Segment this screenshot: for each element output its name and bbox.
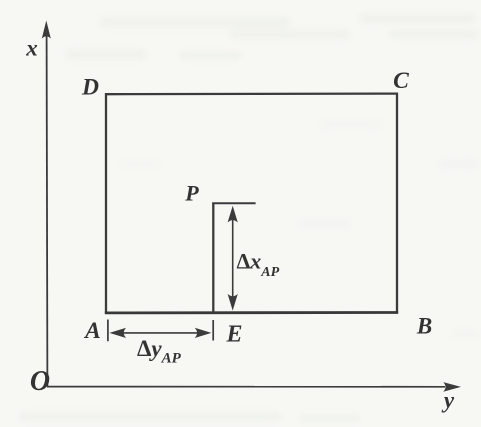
dimension arrow Δy_AP (horizontal double-headed): [121, 332, 199, 334]
svg-text:P: P: [184, 181, 199, 206]
svg-text:B: B: [416, 314, 432, 339]
svg-text:C: C: [393, 68, 409, 94]
horizontal segment at P: [212, 202, 255, 204]
rectangle ABCD: [106, 94, 397, 313]
svg-text:E: E: [225, 322, 242, 348]
y-axis arrowhead: [443, 382, 461, 392]
x-axis (vertical): [46, 36, 49, 387]
dimension arrow Δx_AP (vertical double-headed): [232, 218, 234, 298]
y-axis (horizontal): [47, 386, 445, 388]
segment PE (vertical through P): [212, 203, 214, 313]
bottom edge AB: [105, 311, 398, 314]
svg-text:y: y: [441, 388, 455, 413]
x-axis arrowhead: [42, 21, 51, 39]
svg-text:O: O: [30, 366, 50, 397]
svg-text:A: A: [83, 318, 101, 344]
svg-text:D: D: [81, 75, 99, 101]
tick below E: [212, 320, 214, 341]
tick below A: [107, 320, 109, 342]
svg-text:x: x: [25, 36, 38, 61]
